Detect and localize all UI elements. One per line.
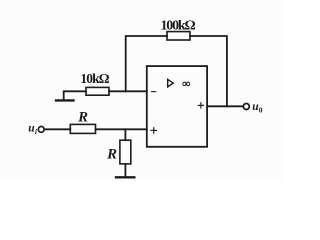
op-amp U1 noninverting mark: [151, 128, 157, 133]
wire input terminal to R1: [44, 128, 70, 130]
op-amp U1 infinity gain symbol: [182, 78, 190, 90]
svg-text:i: i: [35, 127, 38, 136]
label ui: [28, 122, 38, 136]
svg-text:10kΩ: 10kΩ: [80, 71, 109, 86]
input terminal ui circle: [38, 126, 44, 132]
op-amp U1 body: [147, 66, 207, 147]
wire 10k left to ground: [64, 91, 86, 99]
label uo: [252, 101, 262, 115]
op-amp U1 triangle symbol: [168, 79, 174, 86]
svg-text:R: R: [106, 147, 117, 163]
wire op-amp output to terminal: [207, 105, 243, 107]
ground G2 bar: [116, 176, 134, 178]
svg-text:R: R: [77, 109, 88, 125]
op-amp U1 output polarity mark: [198, 103, 203, 108]
wire R1 to op-amp noninverting input: [96, 128, 147, 130]
wire R2 to ground: [124, 164, 126, 176]
resistor R2 (to ground): [120, 140, 131, 164]
resistor R1 (series input R): [70, 124, 95, 133]
label R2: [106, 147, 117, 163]
label R1: [77, 109, 88, 125]
wire node to R2 vertical: [124, 129, 126, 140]
resistor Rf 100k: [167, 32, 190, 40]
resistor 10k: [86, 87, 109, 95]
op-amp U1 inverting mark: [152, 91, 156, 93]
svg-text:∞: ∞: [182, 78, 190, 90]
svg-text:100kΩ: 100kΩ: [161, 18, 196, 33]
label 10kOhm: [80, 71, 109, 86]
label 100kOhm: [161, 18, 196, 33]
output terminal uo circle: [243, 104, 249, 110]
wire feedback left vertical (inverting node to top): [126, 36, 167, 91]
svg-text:0: 0: [259, 105, 263, 114]
ground G1 bar: [56, 99, 74, 101]
wire 10k to op-amp inverting input: [109, 90, 147, 92]
wire feedback right (resistor to output node): [190, 36, 227, 106]
